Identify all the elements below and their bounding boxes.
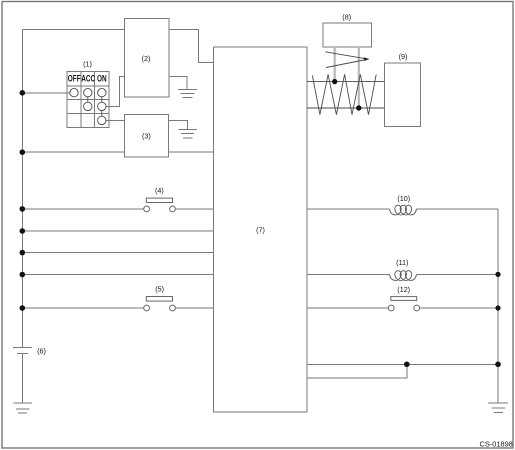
svg-text:OFF: OFF [68,74,81,84]
svg-text:ON: ON [97,74,107,84]
svg-text:(5): (5) [155,285,164,294]
svg-text:(1): (1) [83,60,92,69]
svg-text:(12): (12) [397,285,410,294]
svg-text:(4): (4) [155,186,164,195]
svg-text:(10): (10) [397,194,410,203]
svg-text:(7): (7) [256,225,265,234]
svg-text:CS-01898: CS-01898 [480,439,513,448]
svg-text:(3): (3) [142,132,151,141]
svg-text:(6): (6) [37,347,46,356]
svg-text:ACC: ACC [81,74,95,84]
svg-text:(8): (8) [342,13,351,22]
svg-text:(2): (2) [142,54,151,63]
svg-text:(9): (9) [399,52,408,61]
svg-text:(11): (11) [396,258,408,267]
